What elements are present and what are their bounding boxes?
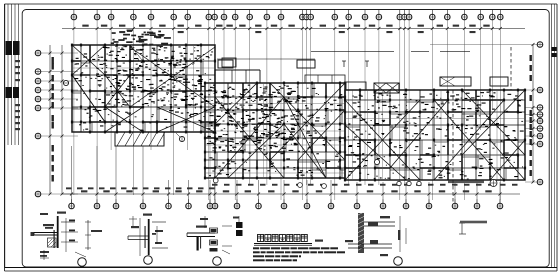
detail 2 section: [128, 214, 168, 257]
in-plan circle b: [298, 183, 303, 188]
mid block top porches: [215, 51, 470, 83]
bottom axis circles: [69, 199, 503, 209]
left axis lines: [41, 53, 78, 194]
in-plan bubble left: [63, 80, 68, 85]
annotation cluster top: [111, 30, 171, 61]
balcony box 5: [490, 77, 508, 86]
plan right block walls: [344, 89, 526, 182]
detail 3 section: [187, 216, 243, 254]
right axis circles: [537, 42, 543, 185]
drawing title text: [258, 235, 308, 242]
small bracket detail: [459, 223, 466, 234]
plan mid block annotations: [207, 85, 343, 177]
detail 3 bubble: [213, 257, 222, 266]
stair appendage: [115, 132, 165, 146]
top axis circles: [71, 10, 503, 21]
left dimension lines: [49, 45, 64, 196]
dashed axis line: [452, 90, 454, 203]
plan mid block diagonals: [215, 83, 345, 178]
right axis lines and dims: [430, 43, 537, 184]
plan right block diagonals: [345, 90, 525, 180]
top axis grid lines: [74, 20, 500, 200]
in-plan circle a: [213, 178, 218, 183]
small circles bottom right block: [397, 181, 421, 185]
balcony box 3: [346, 82, 399, 93]
bottom dimension line: [62, 146, 520, 203]
left strip small text: [31, 232, 35, 236]
inner dimension text rows: [66, 184, 518, 189]
left title strip columns: [5, 4, 19, 268]
notes text lines: [253, 247, 345, 261]
detail 4 bubble: [394, 257, 403, 266]
plan mid block walls: [204, 82, 346, 180]
title underline: [254, 240, 323, 246]
top dimension line: [62, 25, 525, 33]
in-plan circle c: [322, 184, 327, 189]
right strip marks: [552, 4, 557, 268]
gray bar right block bottom: [448, 181, 484, 184]
plan right block annotations: [348, 92, 524, 180]
plan left block annotations: [75, 45, 214, 131]
detail 4 section: [345, 212, 406, 256]
in-plan bubble right: [374, 159, 379, 164]
detail 2 bubble: [144, 256, 153, 265]
balcony box 1: [218, 60, 233, 68]
detail 1 section: [34, 212, 102, 261]
balcony box 4: [440, 77, 471, 86]
left axis circles: [35, 50, 41, 197]
dashed axis line 2: [510, 47, 512, 90]
in-plan bubble mid: [176, 133, 185, 142]
left strip black block 2: [6, 87, 20, 98]
left strip text ticks: [15, 60, 20, 130]
detail 1 bubble: [78, 258, 87, 267]
isolated circle right: [490, 180, 497, 187]
left strip black block 1: [6, 41, 20, 55]
plan left block walls: [71, 44, 216, 134]
gray scale bar: [460, 221, 487, 224]
balcony box 2: [297, 60, 315, 68]
plan left block diagonals: [72, 45, 215, 132]
